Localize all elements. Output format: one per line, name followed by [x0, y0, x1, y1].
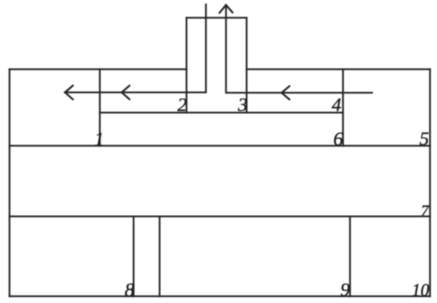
- svg-text:2: 2: [177, 95, 187, 116]
- svg-text:6: 6: [333, 128, 343, 150]
- svg-text:7: 7: [421, 203, 430, 220]
- svg-text:3: 3: [237, 95, 248, 116]
- svg-text:4: 4: [332, 95, 342, 116]
- svg-text:1: 1: [94, 129, 104, 150]
- svg-text:9: 9: [340, 280, 350, 301]
- svg-text:8: 8: [125, 281, 135, 302]
- svg-text:5: 5: [420, 129, 430, 150]
- svg-text:10: 10: [412, 280, 430, 300]
